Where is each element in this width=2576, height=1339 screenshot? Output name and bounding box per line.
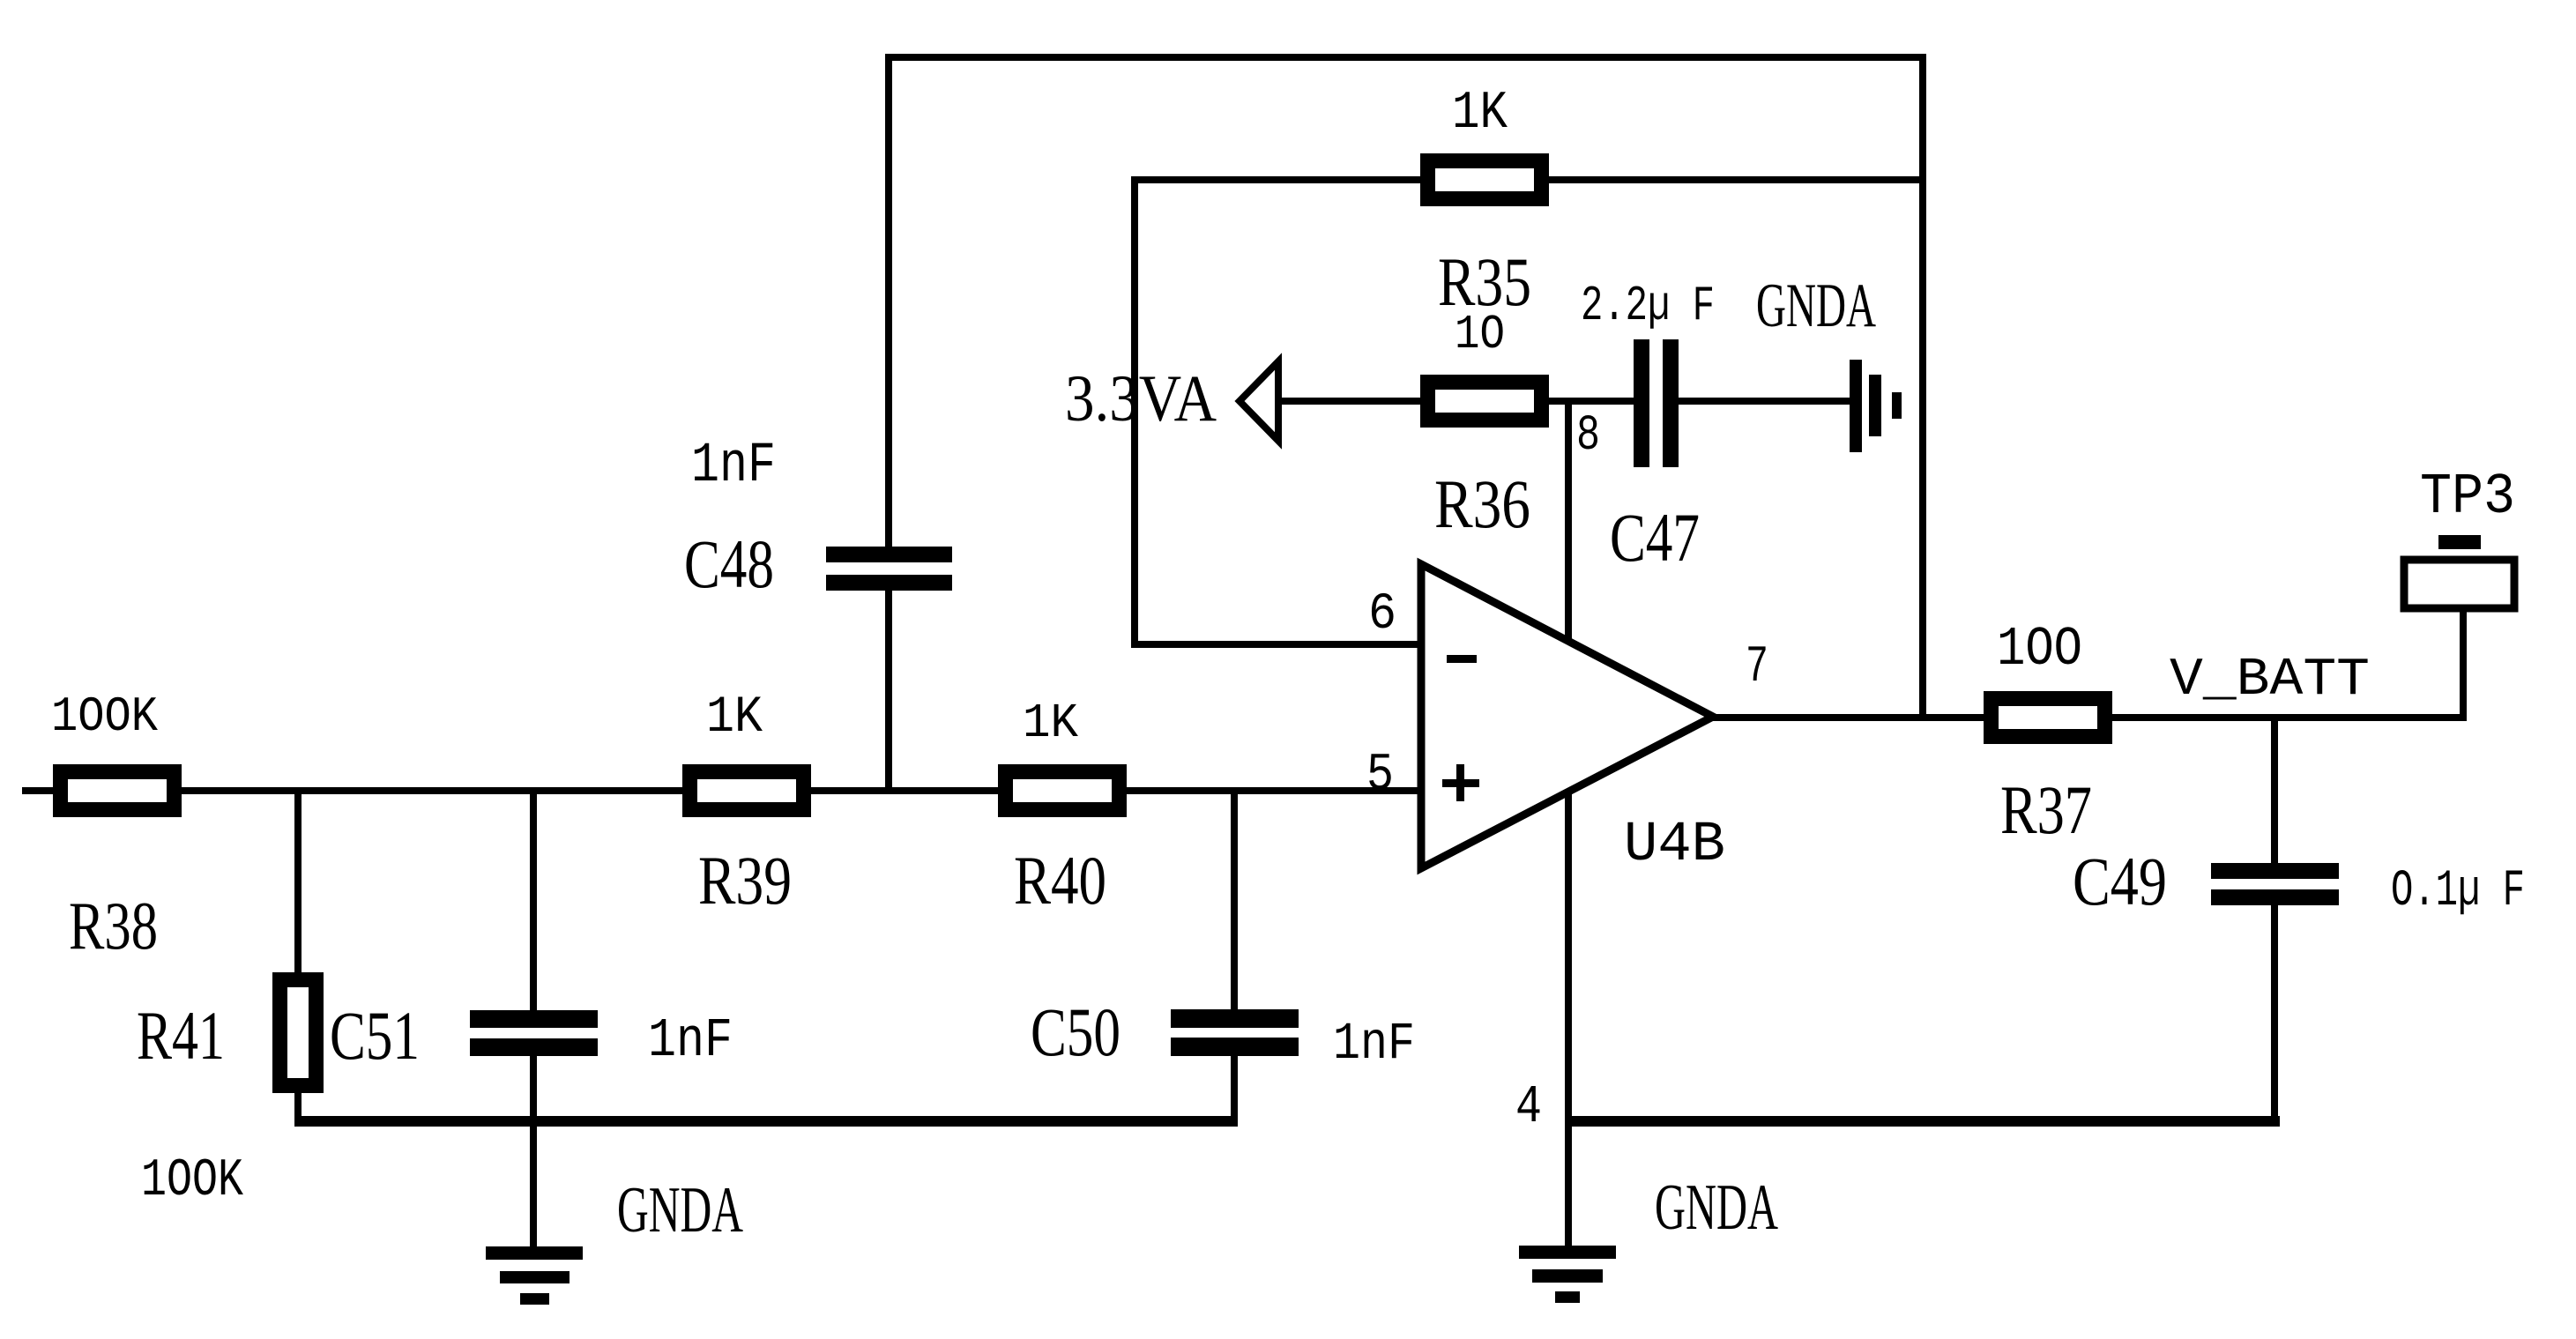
- svg-text:1K: 1K: [1023, 696, 1078, 751]
- wire C49 bottom vertical: [2271, 718, 2278, 1127]
- wire pin 4 vertical to ground: [1565, 791, 1572, 1246]
- resistor R40 1K: [998, 764, 1127, 817]
- svg-text:6: 6: [1368, 586, 1396, 643]
- svg-text:U4B: U4B: [1624, 814, 1725, 877]
- svg-text:R38: R38: [69, 888, 158, 963]
- wire top feedback loop from C48 top to output node: [889, 57, 1923, 791]
- wire bottom-left bus: [294, 1116, 1238, 1127]
- capacitor C49 0.1uF: [2206, 863, 2343, 905]
- svg-text:GNDA: GNDA: [617, 1174, 743, 1246]
- wire main input line: [22, 787, 1421, 794]
- resistor R35 1K: [1420, 153, 1549, 206]
- svg-text:4: 4: [1515, 1078, 1542, 1138]
- wire C51 branch to ground: [530, 791, 537, 1246]
- svg-text:1K: 1K: [1452, 84, 1508, 144]
- svg-text:R37: R37: [2000, 771, 2092, 848]
- svg-text:V_BATT: V_BATT: [2170, 651, 2370, 710]
- resistor R36 10: [1420, 375, 1549, 428]
- svg-text:1nF: 1nF: [691, 435, 776, 498]
- svg-text:GNDA: GNDA: [1655, 1172, 1778, 1244]
- svg-text:C48: C48: [684, 525, 774, 602]
- svg-text:1nF: 1nF: [648, 1009, 733, 1072]
- power arrow 3.3VA: [1240, 361, 1278, 441]
- ground GNDA left: [486, 1246, 583, 1305]
- resistor R38 100K: [53, 764, 182, 817]
- wire TP3 drop: [2460, 608, 2467, 718]
- resistor R41 100K vertical: [272, 972, 324, 1093]
- svg-text:GNDA: GNDA: [1756, 272, 1876, 340]
- svg-text:2.2µ F: 2.2µ F: [1581, 278, 1715, 334]
- capacitor C48 1nF: [820, 547, 957, 591]
- svg-text:R40: R40: [1014, 842, 1106, 919]
- svg-text:R39: R39: [698, 842, 792, 919]
- svg-text:R41: R41: [137, 997, 225, 1074]
- svg-text:1K: 1K: [706, 689, 763, 747]
- svg-text:C51: C51: [330, 997, 420, 1074]
- svg-text:R36: R36: [1434, 465, 1530, 542]
- svg-text:1OOK: 1OOK: [51, 688, 158, 745]
- svg-text:1OOK: 1OOK: [141, 1151, 243, 1211]
- wire pin 8 vertical: [1565, 398, 1572, 641]
- wire bottom-right bus to pin 4 junction: [1565, 1116, 2280, 1127]
- capacitor C50 1nF: [1165, 1009, 1303, 1056]
- capacitor C51 1nF: [465, 1010, 602, 1056]
- ground GNDA right: [1519, 1246, 1616, 1303]
- svg-text:1nF: 1nF: [1333, 1015, 1415, 1074]
- wire op-amp output to V_BATT: [1713, 714, 2467, 721]
- wire R35 feedback line and pin 6 lead: [1135, 180, 1923, 644]
- wire R41 branch vertical: [294, 791, 302, 1127]
- svg-text:C49: C49: [2073, 843, 2167, 919]
- svg-text:O.1µ F: O.1µ F: [2391, 863, 2525, 920]
- test point TP3: [2404, 535, 2514, 608]
- op-amp U4B: [1421, 564, 1713, 868]
- ground GNDA top rotated: [1850, 360, 1902, 452]
- svg-text:1O: 1O: [1455, 307, 1505, 362]
- svg-text:7: 7: [1746, 639, 1768, 696]
- svg-text:C50: C50: [1031, 993, 1120, 1070]
- svg-text:8: 8: [1576, 408, 1600, 465]
- wire C50 branch vertical: [1231, 791, 1238, 1127]
- svg-text:5: 5: [1366, 746, 1394, 806]
- wire 3.3VA to R36 to C47 to ground: [1278, 398, 1850, 405]
- svg-text:TP3: TP3: [2420, 465, 2515, 530]
- capacitor C47 2.2uF vertical plates: [1634, 338, 1679, 470]
- resistor R39 1K: [682, 764, 811, 817]
- svg-text:3.3VA: 3.3VA: [1065, 362, 1217, 435]
- svg-text:C47: C47: [1610, 499, 1700, 576]
- resistor R37 100: [1984, 691, 2112, 744]
- svg-text:1OO: 1OO: [1997, 618, 2082, 681]
